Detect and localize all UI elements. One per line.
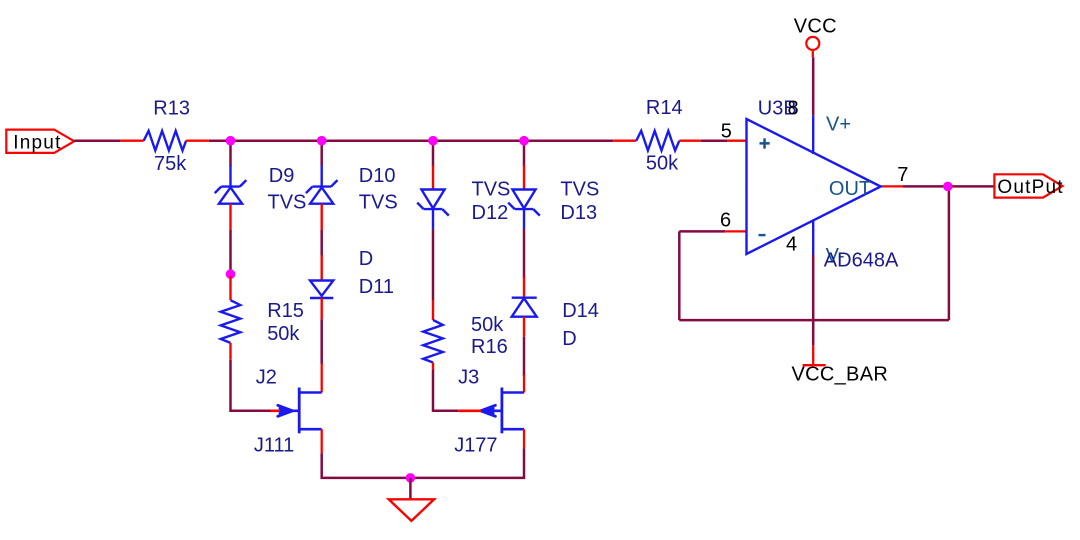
- wire D9 to node E: [229, 230, 232, 274]
- svg-text:D: D: [562, 328, 576, 350]
- diode D9 TVS: [215, 165, 247, 230]
- wire D13 to D14: [523, 229, 526, 278]
- wire pin6 feedback left: [679, 230, 725, 233]
- wire ground stub: [409, 478, 412, 499]
- U3B triangle body: [747, 119, 881, 254]
- diode D14: [512, 277, 537, 337]
- svg-text:7: 7: [897, 164, 908, 186]
- wire node A down to D9: [229, 141, 232, 166]
- U3B minus input marker: [759, 234, 766, 236]
- node A junction: [226, 136, 236, 146]
- svg-text:4: 4: [786, 234, 797, 256]
- svg-text:D12: D12: [472, 202, 509, 224]
- J3 drain pin stub: [523, 375, 525, 393]
- svg-text:V+: V+: [826, 113, 851, 135]
- U3B pin 6 stub: [725, 230, 746, 232]
- node B junction: [317, 136, 327, 146]
- svg-text:AD648A: AD648A: [824, 250, 899, 272]
- wire feedback left vertical: [678, 231, 681, 320]
- svg-text:D11: D11: [359, 276, 394, 298]
- ground node junction: [406, 473, 416, 483]
- wire feedback bottom horizontal: [679, 319, 949, 322]
- svg-text:D13: D13: [560, 202, 597, 224]
- svg-text:TVS: TVS: [359, 192, 398, 214]
- node E junction: [226, 269, 236, 279]
- wire D11 to J2 drain: [320, 319, 323, 364]
- power VCC_BAR: [803, 345, 826, 365]
- svg-text:50k: 50k: [471, 314, 504, 336]
- svg-text:TVS: TVS: [560, 179, 599, 201]
- svg-text:R13: R13: [153, 98, 190, 120]
- resistor R15: [221, 276, 241, 360]
- svg-text:J2: J2: [256, 367, 277, 389]
- svg-text:TVS: TVS: [472, 179, 511, 201]
- wire VCC to V+: [812, 57, 815, 115]
- node C junction: [428, 136, 438, 146]
- power VCC: [806, 37, 819, 57]
- diode D11: [310, 255, 333, 319]
- svg-text:R14: R14: [646, 97, 683, 119]
- resistor R14: [613, 131, 700, 151]
- svg-text:TVS: TVS: [268, 192, 307, 214]
- wire R16 to J3 gate: [433, 370, 458, 411]
- svg-text:J177: J177: [454, 435, 497, 457]
- wire node D to R14: [524, 139, 613, 142]
- svg-text:Input: Input: [13, 132, 61, 153]
- U3B pin 5 stub: [727, 140, 746, 142]
- svg-text:OUT: OUT: [829, 178, 871, 200]
- svg-text:R16: R16: [471, 336, 508, 358]
- wire Input to R13: [74, 139, 120, 142]
- op-amp U3B: [725, 115, 903, 254]
- svg-text:J111: J111: [254, 435, 294, 457]
- svg-text:75k: 75k: [154, 153, 187, 175]
- svg-text:8: 8: [788, 98, 799, 120]
- port OutPut: [994, 174, 1063, 198]
- resistor R16: [423, 300, 443, 370]
- wire node A to node B: [231, 139, 322, 142]
- J3 source pin stub: [523, 429, 525, 448]
- U3B V+ pin: [812, 115, 814, 154]
- wire D12 to R16: [432, 229, 435, 300]
- svg-text:50k: 50k: [267, 323, 300, 345]
- ground: [389, 499, 434, 521]
- svg-text:6: 6: [720, 210, 731, 232]
- resistor R13: [120, 131, 208, 151]
- port Input: [6, 130, 74, 154]
- wire R15 to J2 gate: [231, 360, 271, 411]
- wire R14 to op-amp pin 5: [701, 139, 728, 142]
- transistor J3: [458, 388, 524, 434]
- node D junction: [519, 136, 529, 146]
- wire R13 to node A: [209, 139, 231, 142]
- diode D13 TVS: [508, 165, 540, 228]
- wire node C to node D: [433, 139, 524, 142]
- wire V- down: [812, 255, 815, 346]
- wire node C down to D12: [432, 141, 435, 166]
- diode D12 TVS: [417, 165, 449, 229]
- diode D10 TVS: [306, 165, 338, 230]
- svg-text:J3: J3: [458, 367, 479, 389]
- svg-text:5: 5: [721, 121, 732, 143]
- U3B V- pin: [812, 220, 814, 255]
- svg-text:R15: R15: [267, 300, 304, 322]
- wire output to port: [903, 185, 994, 188]
- svg-text:50k: 50k: [646, 153, 679, 175]
- U3B plus input marker: [760, 138, 770, 148]
- wire J2 source to ground node: [322, 453, 411, 478]
- wire D14 to J3 drain: [523, 337, 526, 376]
- svg-text:VCC: VCC: [794, 16, 837, 38]
- svg-text:D10: D10: [359, 165, 396, 187]
- output node junction: [943, 182, 953, 192]
- wire D10 to D11: [320, 230, 323, 256]
- wire node B to node C: [322, 139, 433, 142]
- J2 source pin stub: [321, 429, 323, 453]
- wire J3 source to ground node: [410, 448, 524, 478]
- U3B pin 7 stub: [881, 185, 903, 187]
- J2 drain pin stub: [321, 363, 323, 392]
- svg-text:D14: D14: [562, 300, 599, 322]
- svg-text:D: D: [359, 248, 373, 270]
- svg-text:D9: D9: [269, 165, 295, 187]
- wire feedback right vertical: [948, 186, 951, 320]
- wire node B down to D10: [320, 141, 323, 166]
- transistor J2: [270, 388, 322, 434]
- svg-text:OutPut: OutPut: [997, 177, 1063, 198]
- svg-text:VCC_BAR: VCC_BAR: [792, 363, 889, 385]
- wire node D down to D13: [523, 141, 526, 166]
